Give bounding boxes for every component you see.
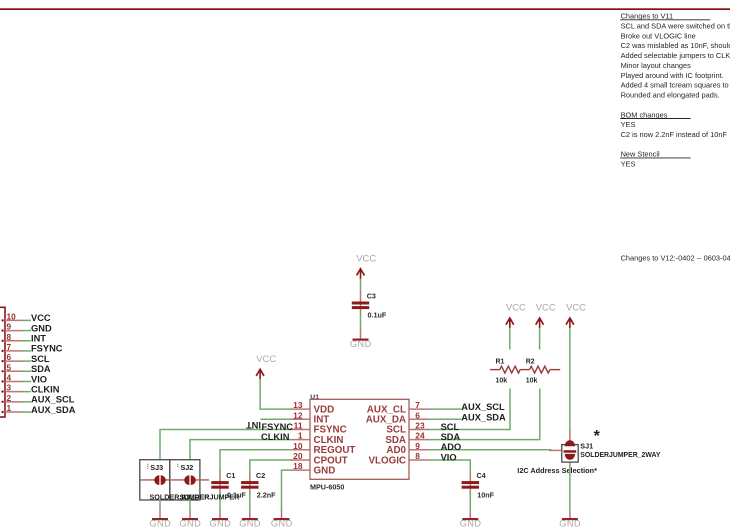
svg-text:SCL: SCL <box>441 422 460 432</box>
svg-text:SJ3: SJ3 <box>150 463 163 472</box>
notes: Changes to V11 block <box>620 12 730 169</box>
svg-text:GND: GND <box>314 465 336 476</box>
svg-text:9: 9 <box>7 322 12 332</box>
label CLKIN <box>261 432 290 442</box>
svg-text:C2: C2 <box>256 471 265 480</box>
svg-text:C2 is now 2.2nF instead of 10n: C2 is now 2.2nF instead of 10nF <box>621 130 728 139</box>
svg-text:11: 11 <box>294 421 303 431</box>
wire VCC to U1 pin 13 <box>260 380 290 410</box>
wire net INT <box>23 334 47 344</box>
wire SJ2 to ground <box>189 500 191 510</box>
ground (below C4) <box>460 510 482 528</box>
svg-text:INT: INT <box>31 334 46 344</box>
svg-text:7: 7 <box>415 400 420 410</box>
svg-text:7: 7 <box>7 342 12 352</box>
svg-text:Broke out VLOGIC line: Broke out VLOGIC line <box>621 31 696 40</box>
connector J1 pin 5 <box>1 362 22 372</box>
connector J1 pin 7 <box>1 342 22 352</box>
svg-text:6: 6 <box>415 410 420 420</box>
svg-text:I2C Address Selection*: I2C Address Selection* <box>517 466 597 475</box>
wire net AUX_SCL <box>23 395 75 405</box>
svg-text:AUX_SCL: AUX_SCL <box>31 395 75 405</box>
svg-text:AUX_SDA: AUX_SDA <box>31 405 76 415</box>
wire net SCL <box>23 354 50 364</box>
wire net SCL (U1 pin 23 to R1) <box>429 389 510 429</box>
svg-text:Changes to V11: Changes to V11 <box>621 12 673 21</box>
svg-text:GND: GND <box>460 519 482 529</box>
connector J1 pin 3 <box>1 383 22 393</box>
supply VCC (R1 pullup) <box>506 302 526 329</box>
label I2C Address Selection <box>517 466 597 475</box>
svg-text:6: 6 <box>7 352 12 362</box>
wire net FSYNC <box>23 344 63 354</box>
svg-text:SOLDERJUMPER_2WAY: SOLDERJUMPER_2WAY <box>580 452 661 459</box>
svg-text:24: 24 <box>415 431 425 441</box>
connector J1 pin 1 <box>1 403 22 413</box>
svg-text:FSYNC: FSYNC <box>262 422 294 432</box>
wire net CLKIN <box>23 384 60 394</box>
wire net SDA (U1 pin 24 to R2) <box>429 389 539 439</box>
label VIO <box>441 452 457 462</box>
label SDA <box>441 432 461 442</box>
connector J1 pin 10 <box>1 311 22 321</box>
svg-text:VIO: VIO <box>31 374 47 384</box>
svg-text:SDA: SDA <box>31 364 51 374</box>
svg-text:VCC: VCC <box>256 353 276 364</box>
wire net SDA <box>23 364 51 374</box>
svg-text:R2: R2 <box>526 359 535 366</box>
solder jumper SJ3 <box>140 460 210 502</box>
wire net INT (U1 pin 12) <box>261 418 290 420</box>
solder jumper SJ1 (SOLDERJUMPER_2WAY) <box>549 430 661 468</box>
svg-text:VCC: VCC <box>506 302 526 313</box>
wire net VIO (U1 pin 8 to C4) <box>429 460 470 471</box>
svg-text:YES: YES <box>621 160 636 169</box>
wire U1 pin 18 GND <box>282 470 291 510</box>
U1 pin 7 AUX_CL <box>367 400 430 415</box>
connector J1 body <box>0 307 5 417</box>
wire C4 to ground <box>469 494 471 511</box>
svg-text:SJ2: SJ2 <box>181 463 194 472</box>
wire C2 to ground <box>249 494 251 511</box>
wire net AUX_SDA (U1 pin 6) <box>429 418 460 420</box>
wire SJ1 to ground <box>569 467 571 510</box>
SJ3 pads <box>154 475 166 485</box>
svg-text:×××: ××× <box>146 463 150 469</box>
resistor R1 10k <box>490 359 520 385</box>
wire net VCC <box>23 313 51 323</box>
connector J1 pin 8 <box>1 332 22 342</box>
svg-text:ADO: ADO <box>441 442 462 452</box>
capacitor C1 0.1uF <box>211 471 246 500</box>
svg-text:××: ×× <box>176 463 180 467</box>
wire C3 to ground <box>360 314 362 331</box>
supply VCC (U1 VDD) <box>256 353 276 380</box>
U1 pin 18 GND <box>290 461 335 476</box>
svg-text:10k: 10k <box>496 377 508 384</box>
supply VCC (C3 bypass) <box>356 252 376 279</box>
svg-text:SJ1: SJ1 <box>580 442 593 451</box>
top border rule <box>0 8 730 10</box>
wire VCC to SJ1 <box>569 329 571 430</box>
svg-text:Added 4 small tcream squares t: Added 4 small tcream squares to <box>621 81 729 90</box>
svg-text:Minor layout changes: Minor layout changes <box>621 61 692 70</box>
svg-text:GND: GND <box>209 519 231 529</box>
svg-text:2: 2 <box>7 393 12 403</box>
ground (below SJ1) <box>559 510 581 528</box>
U1 pin 9 AD0 <box>386 441 429 456</box>
supply VCC (R2 pullup) <box>536 302 556 329</box>
svg-text:1: 1 <box>298 431 303 441</box>
svg-text:1: 1 <box>7 403 12 413</box>
notes: Changes to V12 line <box>621 254 730 263</box>
svg-text:BOM changes: BOM changes <box>621 110 668 119</box>
op-amp U1 body (MPU-6050 IC) <box>310 394 409 492</box>
svg-text:10: 10 <box>7 311 17 321</box>
svg-text:GND: GND <box>239 519 261 529</box>
ground (below SJ3) <box>149 510 171 528</box>
wire C1 to ground <box>219 494 221 511</box>
wire net FSYNC (U1 pin 11 to SJ3) <box>160 429 290 459</box>
svg-text:4: 4 <box>7 372 12 382</box>
svg-text:Rounded and elongated pads.: Rounded and elongated pads. <box>621 91 720 100</box>
svg-text:9: 9 <box>415 441 420 451</box>
svg-text:GND: GND <box>31 323 52 333</box>
wire VCC to R2 <box>539 329 541 349</box>
svg-text:2.2nF: 2.2nF <box>257 490 276 499</box>
wire SJ3 to ground <box>159 500 161 510</box>
svg-text:GND: GND <box>179 519 201 529</box>
svg-text:VIO: VIO <box>441 452 457 462</box>
connector J1 pin 6 <box>1 352 22 362</box>
svg-text:Played around with IC footprin: Played around with IC footprint. <box>621 71 724 80</box>
wire net ADO (U1 pin 9 to SJ1) <box>429 449 550 451</box>
U1 pin 1 CLKIN <box>290 431 343 446</box>
supply VCC (SJ1) <box>566 302 586 329</box>
svg-text:SCL: SCL <box>31 354 50 364</box>
ground (below SJ2) <box>179 510 201 528</box>
svg-text:GND: GND <box>271 519 293 529</box>
svg-text:0.1uF: 0.1uF <box>368 311 387 320</box>
U1 pin 10 REGOUT <box>290 441 355 456</box>
svg-text:SOLDERJUMPER: SOLDERJUMPER <box>180 492 241 501</box>
label FSYNC <box>262 422 294 432</box>
U1 pin 12 INT <box>290 410 329 425</box>
label star (SJ1) <box>594 428 601 445</box>
ground (below C3) <box>350 331 372 349</box>
svg-text:3: 3 <box>7 383 12 393</box>
svg-text:MPU-6050: MPU-6050 <box>310 483 344 492</box>
svg-text:FSYNC: FSYNC <box>31 344 63 354</box>
capacitor C3 0.1uF <box>352 291 387 320</box>
U1 pin 8 VLOGIC <box>368 451 429 466</box>
svg-text:12: 12 <box>293 410 303 420</box>
svg-text:C3: C3 <box>367 291 376 300</box>
svg-text:VCC: VCC <box>566 302 586 313</box>
svg-text:10nF: 10nF <box>477 490 494 499</box>
svg-text:5: 5 <box>7 362 12 372</box>
svg-text:Added selectable jumpers to CL: Added selectable jumpers to CLKIN <box>621 51 730 60</box>
label AUX_SDA <box>461 412 506 422</box>
U1 pin 11 FSYNC <box>290 421 346 436</box>
wire net AUX_SCL (U1 pin 7) <box>429 408 460 410</box>
U1 pin 20 CPOUT <box>290 451 348 466</box>
wire U1 pin 20 CPOUT to C2 <box>250 460 290 471</box>
wire VCC to R1 <box>509 329 511 349</box>
ground (below C2) <box>239 510 261 528</box>
wire net GND <box>23 323 52 333</box>
ground (below C1) <box>209 510 231 528</box>
svg-text:R1: R1 <box>496 359 505 366</box>
svg-text:C2 was mislabled as 10nF, shou: C2 was mislabled as 10nF, should b <box>621 41 730 50</box>
svg-text:23: 23 <box>415 421 425 431</box>
SJ2 pads <box>184 475 196 485</box>
svg-text:Changes to V12:-0402 -- 0603-0: Changes to V12:-0402 -- 0603-04 <box>621 254 730 263</box>
svg-text:New Stencil: New Stencil <box>621 150 660 159</box>
capacitor C4 10nF <box>462 471 495 500</box>
svg-text:GND: GND <box>350 339 372 349</box>
svg-text:10: 10 <box>293 441 303 451</box>
wire net AUX_SDA <box>23 405 76 415</box>
svg-text:18: 18 <box>293 461 303 471</box>
svg-text:VLOGIC: VLOGIC <box>368 455 406 466</box>
svg-text:GND: GND <box>149 519 171 529</box>
label AUX_SCL <box>461 402 505 412</box>
svg-text:INT: INT <box>246 420 261 430</box>
svg-text:8: 8 <box>7 332 12 342</box>
wire U1 pin 10 REGOUT to C1 <box>220 450 290 471</box>
wire VCC to C3 <box>360 279 362 291</box>
label INT (rotated 180) <box>246 420 261 430</box>
svg-text:10k: 10k <box>526 377 538 384</box>
solder jumper SJ2 <box>170 460 240 502</box>
capacitor C2 2.2nF <box>241 471 276 500</box>
svg-text:CLKIN: CLKIN <box>31 384 60 394</box>
label SCL <box>441 422 460 432</box>
U1 pin 13 VDD <box>290 400 334 415</box>
svg-text:SDA: SDA <box>441 432 461 442</box>
svg-text:AUX_SCL: AUX_SCL <box>461 402 505 412</box>
SJ2 SJ3 pin line <box>140 479 209 481</box>
label ADO <box>441 442 462 452</box>
svg-text:SCL and SDA were switched on t: SCL and SDA were switched on the <box>621 22 730 31</box>
ground (below U1 pin 18) <box>271 510 293 528</box>
svg-text:C4: C4 <box>477 471 486 480</box>
connector J1 pin 2 <box>1 393 22 403</box>
svg-text:CLKIN: CLKIN <box>261 432 290 442</box>
svg-text:GND: GND <box>559 519 581 529</box>
svg-text:U1: U1 <box>310 394 319 401</box>
wire net VIO <box>23 374 47 384</box>
svg-text:VCC: VCC <box>356 252 376 263</box>
U1 pin 24 SDA <box>385 431 429 446</box>
svg-text:C1: C1 <box>226 471 235 480</box>
resistor R2 10k <box>520 359 560 385</box>
connector J1 pin 4 <box>1 372 22 382</box>
svg-text:20: 20 <box>293 451 303 461</box>
wire net CLKIN (U1 pin 1 to SJ2) <box>190 440 290 460</box>
svg-text:VCC: VCC <box>536 302 556 313</box>
svg-text:AUX_SDA: AUX_SDA <box>461 412 506 422</box>
svg-text:YES: YES <box>621 120 636 129</box>
connector J1 pin 9 <box>1 322 22 332</box>
svg-text:13: 13 <box>293 400 303 410</box>
svg-text:VCC: VCC <box>31 313 51 323</box>
svg-text:8: 8 <box>415 451 420 461</box>
U1 pin 6 AUX_DA <box>366 410 430 425</box>
U1 pin 23 SCL <box>386 421 429 436</box>
svg-text:*: * <box>594 428 601 445</box>
